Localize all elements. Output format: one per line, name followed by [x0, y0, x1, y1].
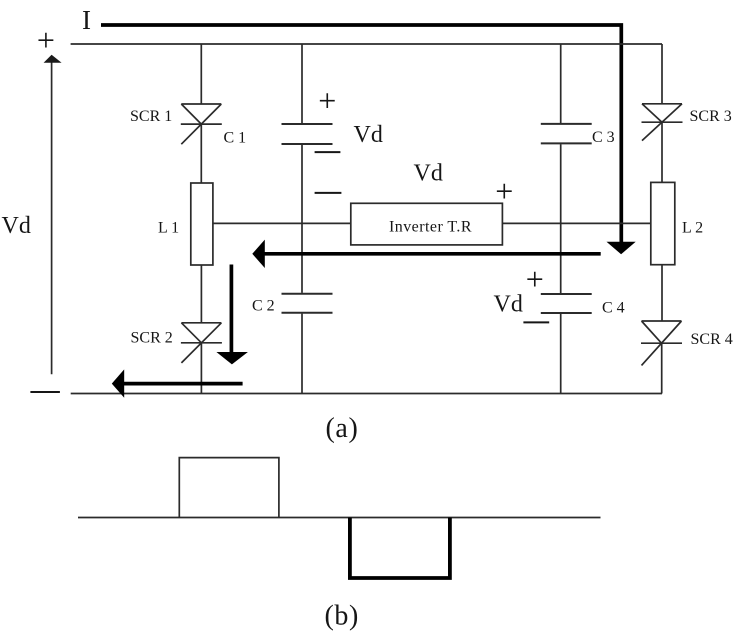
svg-text:L 1: L 1: [158, 220, 179, 237]
arrowhead down (current path): [607, 242, 636, 255]
capacitor C4: [541, 294, 592, 313]
svg-text:SCR 1: SCR 1: [130, 108, 172, 125]
wire bottom rail: [71, 393, 662, 395]
waveform negative pulse (thick): [350, 518, 450, 579]
thyristor SCR2: [181, 323, 222, 363]
wire SCR3 to L2: [661, 122, 663, 182]
waveform axis (b): [78, 517, 601, 519]
wire top rail to SCR1: [200, 44, 202, 104]
svg-text:C 1: C 1: [224, 130, 247, 147]
capacitor C2: [282, 294, 333, 313]
wire C2 to bottom rail: [301, 314, 303, 394]
svg-text:C 2: C 2: [252, 298, 275, 315]
minus sign below C4: [523, 321, 549, 323]
svg-text:C 3: C 3: [592, 129, 615, 146]
wire L1 to SCR2: [200, 265, 202, 323]
svg-text:SCR 2: SCR 2: [131, 330, 173, 347]
wire inverter box to L2: [502, 222, 650, 224]
thyristor SCR1: [181, 104, 222, 144]
svg-text:Inverter T.R: Inverter T.R: [389, 218, 472, 235]
svg-text:+: +: [526, 261, 544, 297]
svg-text:I: I: [82, 5, 91, 35]
minus sign 2 below C1: [315, 192, 342, 194]
thyristor SCR3: [642, 104, 683, 141]
svg-text:Vd: Vd: [2, 213, 31, 239]
thick commutation arrow middle (left): [264, 252, 601, 256]
wire C4 to bottom rail: [560, 314, 562, 394]
svg-text:Vd: Vd: [494, 292, 523, 318]
wire top rail to C3: [560, 44, 562, 123]
minus sign 1 below C1: [315, 151, 341, 153]
thyristor SCR4: [641, 321, 682, 365]
capacitor C3: [541, 124, 592, 143]
wire SCR1 to L1: [200, 124, 202, 183]
wire L1 to inverter box: [213, 222, 351, 224]
svg-text:C 4: C 4: [602, 300, 625, 317]
svg-text:(b): (b): [325, 600, 359, 631]
svg-text:+: +: [37, 22, 55, 58]
inverter transformer box U1: [351, 203, 503, 245]
thick commutation arrow vertical (down): [230, 265, 234, 353]
wire top rail to SCR3: [661, 44, 663, 104]
wire C1 to C2: [301, 145, 303, 293]
thick commutation arrow bottom (left): [124, 382, 243, 386]
thick current path I: top horizontal + right vertical: [101, 25, 621, 242]
wire top rail to C1: [301, 44, 303, 123]
waveform positive pulse: [179, 458, 279, 518]
wire SCR2 to bottom rail: [200, 343, 202, 394]
svg-text:(a): (a): [326, 413, 359, 444]
wire L2 to SCR4: [661, 265, 663, 321]
minus sign bottom-left: [30, 391, 60, 393]
wire C3 to C4: [560, 144, 562, 293]
svg-text:SCR 4: SCR 4: [691, 331, 733, 348]
inductor L2: [651, 182, 675, 264]
svg-text:L 2: L 2: [682, 220, 703, 237]
svg-text:SCR 3: SCR 3: [690, 108, 732, 125]
wire top rail: [71, 43, 662, 45]
svg-text:Vd: Vd: [414, 161, 443, 187]
capacitor C1: [282, 124, 333, 144]
Vd left arrow (up): [51, 62, 53, 374]
svg-text:+: +: [318, 83, 336, 119]
svg-text:Vd: Vd: [354, 122, 383, 148]
inductor L1: [191, 183, 213, 265]
wire SCR4 to bottom rail: [661, 343, 663, 393]
svg-text:+: +: [495, 173, 513, 209]
